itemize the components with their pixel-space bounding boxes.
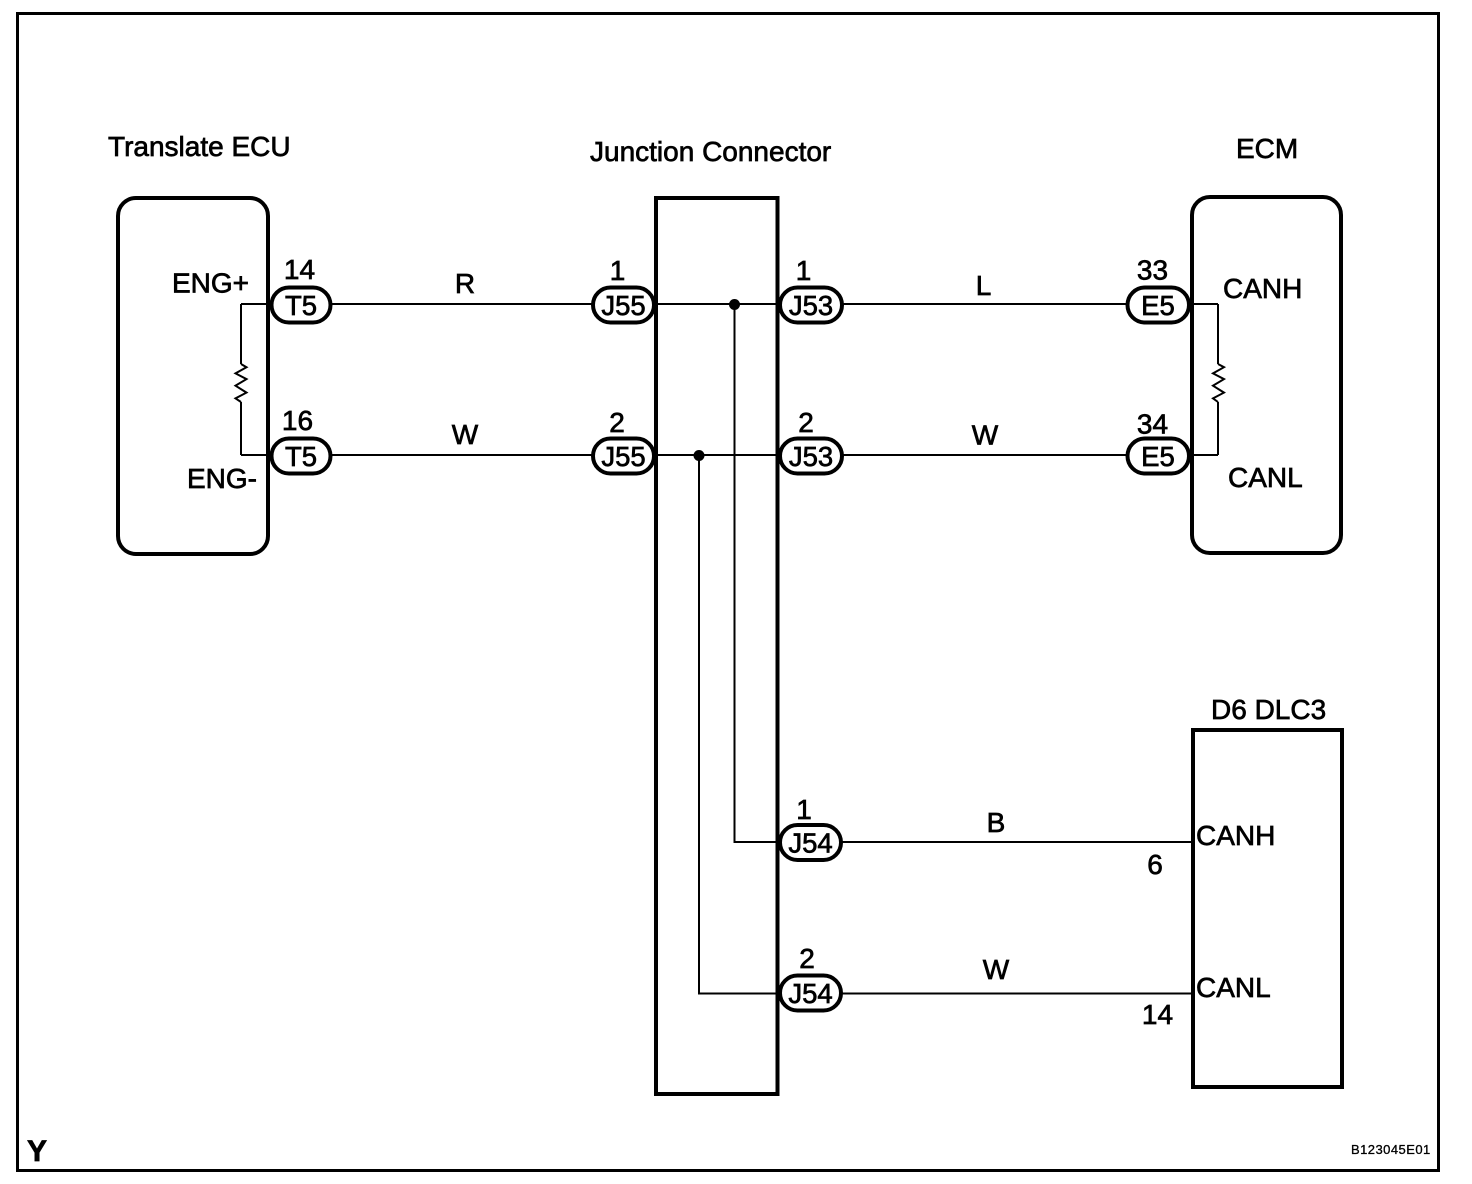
svg-text:2: 2 (798, 407, 814, 438)
svg-text:14: 14 (1142, 999, 1173, 1030)
svg-text:B: B (987, 807, 1006, 838)
svg-text:T5: T5 (285, 290, 317, 321)
wire ECU branch vertical (240, 304, 242, 455)
junction connector box (656, 198, 778, 1094)
svg-text:2: 2 (799, 943, 815, 974)
svg-text:J54: J54 (788, 828, 832, 859)
connector J54 pin1 (780, 825, 841, 860)
svg-text:2: 2 (609, 407, 625, 438)
wire junction vertical to J54 pin1 (735, 304, 1194, 842)
svg-text:CANH: CANH (1196, 820, 1275, 851)
connector T5 pin16 (272, 439, 331, 474)
svg-text:R: R (455, 268, 475, 299)
svg-text:ENG+: ENG+ (172, 268, 249, 299)
svg-text:J55: J55 (601, 441, 645, 472)
svg-text:34: 34 (1137, 409, 1168, 440)
svg-text:Y: Y (27, 1135, 47, 1168)
ECM U2 box (1192, 197, 1341, 553)
svg-text:J55: J55 (601, 290, 645, 321)
svg-text:E5: E5 (1141, 441, 1175, 472)
wire CANL row2 (241, 454, 1218, 456)
DLC3 box (1193, 730, 1342, 1087)
connector E5 pin34 (1128, 439, 1190, 474)
junction node dot row1 (729, 299, 740, 310)
svg-text:CANL: CANL (1196, 972, 1271, 1003)
svg-text:T5: T5 (285, 441, 317, 472)
svg-text:ECM: ECM (1236, 133, 1298, 164)
svg-text:ENG-: ENG- (187, 463, 257, 494)
wire junction vertical to J54 pin2 (699, 455, 1193, 994)
svg-text:CANL: CANL (1228, 462, 1303, 493)
svg-text:W: W (983, 954, 1010, 985)
svg-text:B123045E01: B123045E01 (1351, 1142, 1431, 1157)
svg-text:L: L (976, 270, 992, 301)
svg-text:W: W (972, 420, 999, 451)
svg-text:J53: J53 (789, 290, 833, 321)
ECU U1 box (118, 198, 268, 554)
svg-text:1: 1 (796, 255, 812, 286)
svg-text:D6 DLC3: D6 DLC3 (1211, 694, 1326, 725)
connector J53 pin1 (780, 288, 842, 323)
svg-text:CANH: CANH (1223, 273, 1302, 304)
svg-text:J53: J53 (789, 441, 833, 472)
connector J55 pin1 (593, 288, 654, 323)
svg-text:14: 14 (284, 254, 315, 285)
svg-text:16: 16 (282, 405, 313, 436)
svg-text:W: W (452, 419, 479, 450)
svg-text:J54: J54 (788, 978, 832, 1009)
svg-text:Junction Connector: Junction Connector (590, 136, 831, 167)
svg-text:1: 1 (610, 255, 626, 286)
resistor R1 ECU terminating (236, 364, 247, 402)
svg-text:33: 33 (1137, 255, 1168, 286)
svg-text:6: 6 (1147, 849, 1163, 880)
connector J53 pin2 (780, 439, 842, 474)
junction node dot row2 (694, 450, 705, 461)
wire ECM branch vertical (1217, 304, 1219, 455)
connector T5 pin14 (272, 288, 331, 323)
svg-text:E5: E5 (1141, 290, 1175, 321)
svg-text:1: 1 (796, 794, 812, 825)
resistor R2 ECM terminating (1213, 364, 1224, 402)
wire CANH row1 (241, 303, 1218, 305)
connector E5 pin33 (1128, 288, 1190, 323)
connector J55 pin2 (593, 439, 654, 474)
connector J54 pin2 (780, 976, 841, 1011)
svg-text:Translate ECU: Translate ECU (108, 131, 291, 162)
